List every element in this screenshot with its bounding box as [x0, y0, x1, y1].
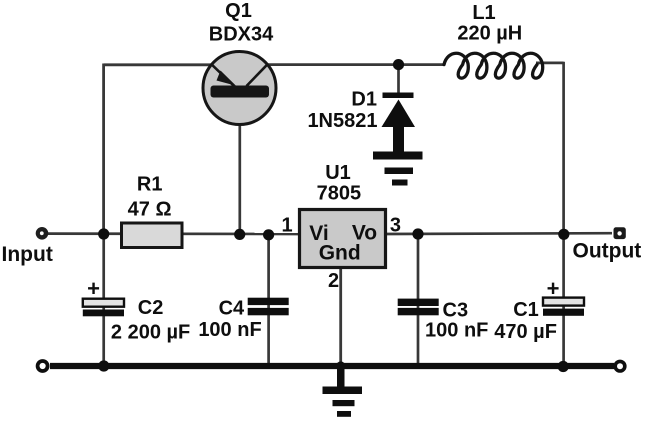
svg-text:2 200 µF: 2 200 µF: [111, 321, 190, 343]
svg-text:100 nF: 100 nF: [198, 319, 261, 341]
svg-text:C2: C2: [138, 297, 164, 319]
svg-text:R1: R1: [137, 174, 163, 196]
node C4 junction: [263, 229, 274, 240]
bottom ground rail: [50, 363, 614, 369]
svg-text:C1: C1: [513, 299, 539, 321]
svg-text:+: +: [87, 276, 100, 301]
ground below U1 pin 2: [323, 366, 363, 417]
svg-text:470 µF: 470 µF: [494, 321, 557, 343]
wire output line: [385, 232, 612, 236]
diode D1: [382, 93, 416, 155]
wire U1 pin 2 vertical: [339, 268, 342, 367]
node C1 bottom rail junction: [558, 361, 569, 372]
svg-text:Q1: Q1: [225, 0, 252, 22]
svg-text:U1: U1: [325, 162, 351, 184]
wire L1 to right corner: [536, 62, 564, 65]
wire left vertical rail: [102, 64, 105, 235]
wire node to D1 cathode: [397, 65, 400, 94]
svg-text:Gnd: Gnd: [319, 242, 361, 265]
node input/left rail junction: [98, 228, 109, 239]
wire input line: [46, 232, 300, 235]
svg-text:L1: L1: [472, 2, 495, 24]
svg-text:D1: D1: [351, 89, 377, 111]
svg-text:100 nF: 100 nF: [425, 320, 488, 342]
node D1 top junction: [393, 59, 404, 70]
wire top rail right segment: [265, 63, 445, 66]
svg-text:C3: C3: [443, 299, 469, 321]
output terminal: [614, 227, 626, 239]
svg-text:Input: Input: [2, 243, 53, 266]
capacitor C1: [543, 298, 584, 316]
ground below D1: [373, 152, 423, 186]
regulator U1: [300, 210, 386, 268]
svg-text:BDX34: BDX34: [209, 24, 274, 46]
svg-text:1: 1: [281, 214, 292, 236]
wire C4 vertical: [267, 234, 270, 366]
input terminal: [36, 227, 49, 240]
node pin2 bottom rail junction: [336, 361, 345, 370]
node C2 bottom rail junction: [98, 360, 109, 371]
svg-text:7805: 7805: [317, 183, 362, 205]
transistor Q1: [203, 52, 276, 125]
svg-text:1N5821: 1N5821: [307, 110, 377, 132]
capacitor C4: [248, 298, 289, 316]
wire top rail left segment: [104, 63, 214, 66]
svg-text:+: +: [547, 276, 560, 301]
wire C1 vertical: [562, 234, 565, 366]
svg-text:Output: Output: [573, 240, 642, 263]
node C3 output junction: [412, 228, 423, 239]
svg-text:C4: C4: [219, 297, 245, 319]
node C1 output junction: [558, 229, 569, 240]
wire right vertical rail: [562, 62, 565, 234]
svg-text:2: 2: [328, 270, 339, 292]
svg-text:220 µH: 220 µH: [457, 22, 522, 44]
resistor R1: [122, 223, 183, 248]
bottom left terminal: [36, 359, 50, 373]
bottom right terminal: [613, 360, 626, 373]
svg-text:47 Ω: 47 Ω: [128, 199, 172, 221]
wire C3 vertical: [417, 234, 420, 366]
node Q1 base junction: [234, 229, 245, 240]
capacitor C3: [398, 299, 439, 316]
capacitor C2: [83, 299, 124, 317]
wire Q1 base vertical: [238, 96, 241, 234]
wire C2 vertical: [102, 234, 105, 366]
svg-text:3: 3: [390, 214, 401, 236]
inductor L1: [444, 53, 543, 78]
